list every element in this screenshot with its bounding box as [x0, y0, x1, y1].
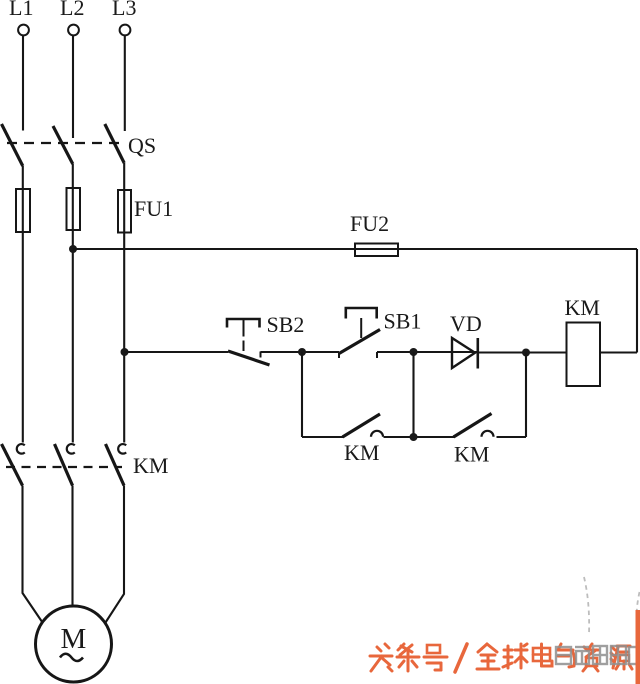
fuse FU1 element a: [16, 189, 30, 232]
switch QS pole 1 blade: [2, 124, 23, 166]
terminal L1: [9, 0, 33, 35]
watermark dashed arc: [584, 577, 640, 644]
svg-text:FU1: FU1: [134, 196, 173, 221]
wire L3 terminal to QS: [124, 36, 126, 132]
wire L2 terminal to QS: [72, 36, 74, 139]
wire branch drop at node C: [525, 353, 527, 438]
wire coil to right drop: [600, 351, 637, 353]
wire through fuse 1 down to KM contact: [22, 190, 24, 443]
fuse FU1 element b: [67, 188, 81, 230]
node B (SB1 right / branch): [410, 348, 418, 356]
switch QS pole 3 blade: [105, 124, 124, 163]
pushbutton SB2 (NC stop): [227, 319, 270, 365]
caption (orange): [370, 644, 632, 672]
wire branch drop at node A: [301, 352, 303, 437]
contactor KM main pole 2: [55, 444, 75, 486]
svg-text:KM: KM: [133, 453, 168, 478]
wire L1 terminal to QS: [22, 36, 24, 131]
char zi: [583, 644, 598, 671]
wire control line to SB2: [125, 351, 229, 353]
slash: [455, 644, 467, 672]
svg-text:SB1: SB1: [384, 309, 422, 334]
char dian: [533, 644, 552, 666]
contact KM auxiliary 1 (NO): [343, 414, 384, 437]
fuse FU2: [355, 244, 398, 257]
wire branch drop at node B: [412, 352, 414, 437]
wire lower branch left segment: [302, 436, 343, 438]
contactor KM main pole 3: [106, 444, 127, 486]
wire right side drop: [636, 249, 638, 353]
svg-text:SB2: SB2: [267, 312, 305, 337]
node C (diode right / branch): [522, 349, 530, 357]
fuse FU1 element c: [118, 190, 131, 233]
char qi: [558, 644, 575, 667]
svg-text:L2: L2: [60, 0, 84, 20]
node junction on L3 (control line tap): [121, 348, 129, 356]
char tou: [370, 644, 392, 671]
wire through fuse 2 down to node: [72, 189, 74, 443]
char qiu: [503, 644, 527, 668]
wire lower branch middle segment: [384, 436, 455, 438]
wire SB2 to SB1: [261, 351, 340, 353]
svg-text:VD: VD: [450, 311, 482, 336]
node D (branch junction): [410, 433, 418, 441]
svg-text:KM: KM: [565, 295, 600, 320]
wire through fuse 3 down to node: [123, 190, 125, 443]
terminal L3: [112, 0, 136, 35]
svg-text:L1: L1: [9, 0, 33, 20]
svg-text:QS: QS: [128, 133, 156, 158]
svg-text:FU2: FU2: [350, 211, 389, 236]
wire KM pole2 to motor: [71, 486, 73, 608]
pushbutton SB1 (NO start): [339, 308, 380, 358]
KM main mechanical link (dashed): [6, 466, 122, 468]
svg-text:L3: L3: [112, 0, 136, 20]
char tiao: [397, 644, 419, 671]
char yuan: [611, 646, 632, 669]
contactor KM main pole 1: [2, 444, 25, 486]
wire diode to coil: [478, 351, 567, 353]
watermark glyphs (gray) over right caption: [556, 646, 639, 664]
svg-text:M: M: [61, 623, 87, 655]
contact KM auxiliary 2 (NO): [454, 414, 494, 438]
coil KM: [567, 323, 601, 387]
wire top control bus: [73, 248, 637, 250]
wire QS pole1 to fuse: [22, 166, 24, 190]
node junction on L2 (control tap): [69, 245, 77, 253]
wire SB1 to diode: [377, 351, 478, 353]
wire QS pole2 to fuse: [72, 164, 74, 189]
node A (SB2 right / branch): [298, 348, 306, 356]
wire lower branch right segment: [497, 436, 527, 438]
orange side bar: [636, 610, 640, 684]
QS mechanical link (dashed): [7, 142, 119, 144]
switch QS pole 2 blade: [53, 126, 73, 164]
motor M: [36, 606, 112, 682]
char hao: [424, 645, 447, 670]
wire KM pole1 to motor: [23, 486, 43, 623]
diode VD: [452, 338, 478, 369]
wire QS pole3 to fuse: [123, 163, 125, 190]
char quan: [477, 644, 499, 669]
terminal L2: [60, 0, 84, 35]
svg-text:KM: KM: [344, 440, 379, 465]
svg-text:KM: KM: [454, 442, 489, 467]
wire KM pole3 to motor: [106, 486, 125, 623]
